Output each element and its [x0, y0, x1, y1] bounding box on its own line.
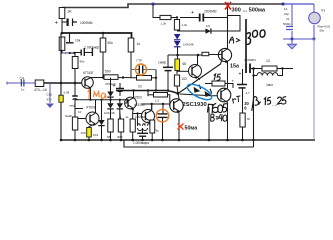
resistor R2 10k — [59, 37, 65, 53]
resistor R20 right of coil — [145, 120, 155, 140]
wire 50k bottom down to row77 — [103, 52, 104, 78]
node x156 y77.8 — [155, 77, 157, 79]
svg-text:1.000мкфа: 1.000мкфа — [133, 141, 149, 145]
node top rail junction 3 — [282, 3, 285, 6]
svg-text:5000p: 5000p — [283, 22, 291, 26]
resistor R12 15 horizontal — [205, 81, 233, 88]
node chain junction — [176, 16, 178, 18]
annotation handwritten 15 — [214, 74, 221, 80]
source C4 input — [20, 77, 25, 92]
svg-text:ГТР: ГТР — [137, 59, 142, 63]
svg-text:10: 10 — [266, 59, 270, 63]
diode D6 — [107, 100, 113, 119]
svg-text:4,7: 4,7 — [246, 91, 251, 95]
resistor Y2 yellow on x177 — [175, 55, 186, 71]
resistor Y1 yellow on x60 — [59, 91, 70, 103]
resistor R15 vertical x76 — [72, 117, 85, 140]
svg-text:104: 104 — [93, 133, 98, 137]
diode D7 — [104, 100, 123, 119]
node rail dots — [60, 139, 255, 142]
ground blue arrow — [288, 39, 297, 49]
wire diode chain — [180, 94, 217, 96]
wire Q5 collector up — [178, 94, 179, 100]
wire to chain top — [171, 17, 177, 19]
capacitor C13 bottom — [137, 129, 148, 140]
diode D5 in ellipse — [205, 89, 212, 97]
transistor Q6 — [189, 55, 202, 80]
svg-text:2Ap: 2Ap — [284, 12, 289, 16]
svg-text:КТ608: КТ608 — [87, 106, 96, 110]
capacitor C14 in orange ring — [136, 59, 147, 76]
svg-text:1,3к: 1,3к — [182, 23, 188, 27]
main vertical bus x60 — [60, 33, 62, 140]
wire base tap T6 — [177, 70, 189, 72]
svg-text:100: 100 — [81, 131, 86, 135]
annotation orange 1mA — [88, 90, 106, 100]
svg-text:1к: 1к — [137, 42, 141, 46]
node y90 junction x167 — [167, 89, 169, 91]
svg-text:68: 68 — [107, 135, 111, 139]
wire 1k bottom down to row77 — [131, 52, 137, 78]
wire drop x227 — [227, 4, 229, 45]
wire chain to y55 — [177, 47, 179, 55]
wire Q3 emitter down to Q4 base — [133, 113, 142, 115]
diode D1 blue down — [174, 34, 181, 40]
svg-text:50ма: 50ма — [185, 125, 198, 131]
capacitor C1 1000Mfd electrolytic — [55, 19, 93, 27]
resistor R17 — [107, 119, 113, 140]
svg-text:68: 68 — [183, 62, 187, 66]
node y90 junction x148 — [147, 89, 149, 91]
capacitor C12 orange trimmer — [154, 104, 169, 140]
wire Q4 emitter down — [151, 121, 154, 124]
svg-text:1.000мкф: 1.000мкф — [84, 46, 99, 50]
transistor Q1 KT315G — [82, 71, 94, 90]
svg-text:1A: 1A — [284, 7, 288, 11]
diode D3 right-pointing — [206, 24, 211, 34]
node y90 junction x133 — [132, 89, 134, 91]
resistor R1 1K top-left — [59, 8, 72, 19]
wire Q4 collector up — [151, 104, 153, 110]
wire Q1 collector up — [91, 77, 104, 79]
svg-text:кт503: кт503 — [134, 96, 142, 100]
label 306 stacked — [244, 101, 249, 111]
wire Q3 collector up — [133, 91, 135, 98]
resistor R18 — [118, 119, 124, 140]
node output junction — [252, 67, 255, 70]
svg-text:1n: 1n — [21, 88, 25, 92]
node N1 — [177, 92, 180, 95]
svg-text:50к: 50к — [108, 41, 114, 45]
node y55 junctions — [176, 54, 179, 57]
wire Q1 emitter down — [90, 88, 92, 100]
transistor Q8 top right — [218, 45, 231, 88]
wire rail2 — [61, 33, 132, 38]
diode D2 blue down — [174, 41, 194, 47]
capacitor C11 left — [70, 83, 78, 117]
node rail2 junction x62 — [61, 32, 64, 35]
node y99.7 junctions — [100, 99, 102, 101]
resistor R3 50v vertical — [72, 53, 85, 83]
wire thick vertical x246 — [245, 19, 247, 64]
node rail2 junction x101 — [102, 32, 105, 35]
annotation handwritten KT — [233, 96, 241, 104]
wire lavender down — [313, 39, 315, 140]
wire drop from rail to y17 — [153, 4, 160, 18]
resistor R21 small in base row — [202, 52, 209, 55]
svg-text:1мкг: 1мкг — [266, 83, 274, 87]
annotation red X 50ma — [178, 124, 198, 132]
wire input to base — [44, 82, 82, 84]
svg-text:2SC1930: 2SC1930 — [183, 102, 207, 108]
resistor R8 2n horizontal — [137, 76, 152, 89]
capacitor C15 1.000mkf — [75, 46, 100, 57]
resistor R11 100 vertical — [174, 71, 187, 94]
capacitor C5 +15 electrolytic mid — [113, 83, 125, 96]
resistor R19 — [125, 108, 135, 140]
wire bus y90 — [116, 91, 178, 94]
wire top rail blue segment — [283, 3, 314, 5]
transistor Q2 KT608 — [86, 106, 99, 127]
annotation handwritten 300 big — [246, 30, 265, 44]
source V1 circle — [309, 4, 331, 39]
svg-text:4700Mfd: 4700Mfd — [244, 58, 256, 62]
wire R1 bottom to rail2 — [61, 19, 63, 34]
wire y99.7 — [75, 100, 127, 103]
wire Q5 emitter down — [178, 111, 180, 140]
wire row77 right to x156 — [152, 77, 157, 79]
diode D4 in ellipse — [194, 85, 201, 93]
svg-text:47u: 47u — [47, 98, 52, 102]
capacitor C7 2200Mfd — [180, 10, 228, 22]
svg-text:1К: 1К — [67, 9, 72, 14]
svg-text:С4: С4 — [20, 77, 24, 81]
svg-text:100: 100 — [182, 77, 188, 81]
wire blue horizontal y39 — [283, 38, 314, 40]
svg-text:1000Mfd: 1000Mfd — [80, 21, 93, 25]
svg-text:825: 825 — [118, 135, 123, 139]
transistor Q4 — [142, 110, 155, 124]
transistor Q3 KT503 — [125, 96, 145, 111]
svg-text:+: + — [113, 84, 116, 90]
svg-text:+: + — [191, 10, 194, 16]
resistor R6 470-1K input — [34, 80, 47, 92]
inductor L1 1mkg — [254, 67, 284, 87]
wire y31 — [177, 16, 240, 32]
wire Q2 emitter yellow — [89, 124, 96, 128]
annotation handwritten a7 — [229, 37, 239, 44]
svg-text:50u: 50u — [320, 29, 325, 33]
svg-text:1N4148: 1N4148 — [183, 43, 194, 47]
resistor Y3 yellow bottom — [87, 128, 99, 141]
wire drop x209 — [208, 107, 210, 140]
svg-text:6мк8: 6мк8 — [65, 114, 72, 118]
annotation handwritten beta 15..25 — [252, 97, 286, 111]
svg-text:1мкф: 1мкф — [158, 61, 166, 65]
node row77 junction x123 — [122, 76, 124, 78]
diode D9 top on x110.5 — [107, 78, 113, 100]
svg-text:100мкг: 100мкг — [135, 115, 146, 119]
capacitor C6 1mkf — [158, 55, 173, 91]
annotation blue ellipse — [185, 81, 214, 103]
wire row77 mid — [118, 77, 131, 79]
svg-text:15а: 15а — [230, 63, 240, 69]
svg-text:2200Mfd: 2200Mfd — [204, 10, 217, 14]
wire top rail left — [62, 4, 283, 8]
svg-text:10к: 10к — [75, 39, 81, 43]
wire ground sub-rail — [124, 140, 254, 147]
wire diagonal — [178, 60, 222, 94]
svg-text:V1: V1 — [321, 9, 325, 13]
svg-text:100: 100 — [145, 121, 150, 125]
capacitor C8 4700Mfd output — [239, 58, 263, 78]
annotation handwritten B=40 — [211, 114, 227, 122]
wire vertical x257 down — [253, 69, 255, 148]
resistor R10 vertical small — [174, 20, 187, 31]
svg-text:+: + — [232, 79, 235, 84]
svg-text:1,3к: 1,3к — [161, 22, 167, 26]
resistor R9 horizontal small — [160, 15, 171, 25]
wire blue left drop — [291, 4, 293, 26]
svg-text:+: + — [239, 72, 242, 78]
svg-text:10: 10 — [78, 110, 82, 114]
svg-text:300 ... 500ма: 300 ... 500ма — [232, 8, 267, 14]
capacitor C2 tick to rail2 — [66, 33, 81, 43]
node row77 junction x101 — [102, 76, 104, 78]
svg-text:1N: 1N — [206, 24, 210, 28]
resistor R5 1k — [128, 38, 140, 52]
transistor Q5 2SC1930 — [170, 99, 183, 113]
svg-text:5,08: 5,08 — [64, 91, 70, 95]
resistor R7 500 horizontal — [104, 70, 118, 87]
inductor L2 100mkg — [135, 112, 150, 130]
labels blue small left — [283, 7, 291, 26]
capacitor C9 4,7 — [232, 69, 251, 113]
wire y69.5 ring row — [131, 69, 156, 71]
wire Q2 collector up — [95, 100, 97, 113]
wire small h y108.5 — [65, 109, 83, 118]
diode D8 lower on x101.5 — [98, 100, 104, 140]
annotation red X top — [225, 2, 231, 10]
svg-text:1,2: 1,2 — [155, 99, 160, 103]
svg-text:мкф: мкф — [70, 104, 76, 108]
wire Q2 base feed — [78, 118, 86, 120]
node blue junctions — [291, 38, 294, 41]
svg-text:С10: С10 — [47, 93, 53, 97]
capacitor C10 blue to ground — [46, 83, 54, 108]
wire y53 with blue overlay — [61, 52, 76, 54]
resistor R16 1,2 loop — [141, 91, 170, 111]
transistor Q7 — [217, 88, 231, 140]
svg-text:1N4148: 1N4148 — [104, 111, 115, 115]
svg-text:470—1К: 470—1К — [34, 88, 47, 92]
wire ground rail main — [61, 139, 315, 141]
svg-text:+: + — [55, 21, 59, 27]
node top rail junction 1 — [152, 3, 155, 6]
node x156 y90.5 — [155, 89, 157, 91]
resistor R14 vertical bottom right — [240, 113, 250, 140]
wire y55 row — [168, 54, 222, 57]
svg-text:2n: 2n — [138, 85, 142, 89]
wire input blue — [7, 82, 35, 85]
node input junction x60 — [60, 82, 63, 85]
annotation handwritten P605 — [208, 104, 227, 114]
wire x156 vertical — [155, 70, 157, 91]
resistor R4 50k — [100, 33, 113, 52]
resistor R13 10 output — [262, 59, 293, 71]
node top rail junction 2 — [226, 3, 229, 6]
svg-text:C1: C1 — [286, 17, 290, 21]
node input junction x75 — [74, 82, 77, 85]
component C1 blue cap — [286, 27, 293, 30]
svg-text:500: 500 — [105, 70, 111, 74]
svg-text:КТ315Г: КТ315Г — [83, 71, 94, 75]
svg-text:40v: 40v — [80, 60, 85, 64]
wire blue below box — [291, 31, 293, 39]
